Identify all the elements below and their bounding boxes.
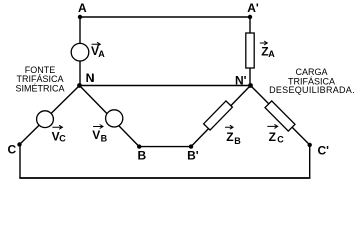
svg-text:N': N' bbox=[235, 73, 247, 87]
svg-text:SIMÉTRICA: SIMÉTRICA bbox=[15, 84, 64, 94]
svg-text:A: A bbox=[98, 49, 105, 59]
svg-text:V: V bbox=[92, 128, 100, 142]
svg-text:A: A bbox=[78, 1, 87, 15]
svg-text:Z: Z bbox=[269, 130, 276, 144]
svg-text:C: C bbox=[277, 135, 284, 145]
svg-text:Z: Z bbox=[226, 130, 233, 144]
svg-text:B: B bbox=[101, 134, 108, 144]
svg-text:C: C bbox=[8, 143, 17, 157]
svg-text:B': B' bbox=[187, 149, 199, 163]
svg-text:B: B bbox=[234, 136, 241, 146]
svg-text:A: A bbox=[268, 49, 275, 59]
svg-text:DESEQUILIBRADA.: DESEQUILIBRADA. bbox=[269, 85, 355, 95]
svg-text:B: B bbox=[138, 149, 147, 163]
svg-text:C: C bbox=[59, 134, 66, 144]
svg-text:A': A' bbox=[247, 1, 259, 15]
svg-text:C': C' bbox=[318, 144, 330, 158]
